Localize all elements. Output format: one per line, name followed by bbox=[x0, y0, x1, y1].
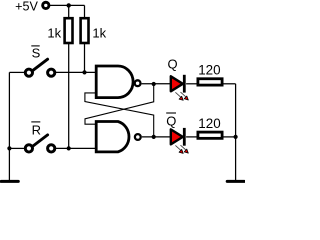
svg-text:1k: 1k bbox=[92, 25, 106, 40]
NAND gate U2 bbox=[96, 122, 141, 152]
resistor R2 1k bbox=[81, 18, 89, 43]
ground left bbox=[1, 180, 18, 183]
svg-text:120: 120 bbox=[198, 63, 220, 78]
node R4 / right vertical junction bbox=[234, 135, 238, 139]
wire feedback Q to U2 top input bbox=[85, 84, 154, 124]
node S-line / R2 junction bbox=[82, 70, 86, 74]
resistor R3 120 bbox=[198, 79, 222, 85]
wire LED2 to R4 bbox=[186, 136, 197, 138]
wire S-line right to gate U1 input bbox=[56, 71, 96, 73]
LED D1 emission arrows bbox=[175, 92, 188, 100]
svg-text:Q: Q bbox=[166, 114, 176, 129]
resistor R1 1k bbox=[65, 18, 73, 43]
wire right vertical to ground bbox=[235, 84, 237, 180]
wire R-line right to gate U2 input bbox=[56, 147, 96, 149]
node Q-bar output junction bbox=[152, 135, 156, 139]
wire LED1 to R3 bbox=[186, 83, 197, 85]
wire U2 output to LED2 bbox=[142, 136, 171, 138]
LED D2 bbox=[171, 128, 185, 146]
wire U1 output to LED1 bbox=[142, 83, 171, 85]
wire S-line left bbox=[9, 71, 24, 73]
node Q output junction bbox=[152, 82, 156, 86]
label S-bar bbox=[31, 46, 40, 61]
wire R4 to right vertical bbox=[223, 136, 235, 138]
node R-line / R1 junction bbox=[67, 146, 71, 150]
switch R bbox=[25, 135, 55, 152]
wire R2 top lead bbox=[84, 5, 86, 18]
svg-text:+5V: +5V bbox=[15, 0, 38, 14]
switch S bbox=[25, 59, 55, 76]
svg-text:1k: 1k bbox=[47, 25, 61, 40]
LED D1 bbox=[171, 75, 185, 93]
ground right bbox=[227, 180, 244, 183]
wire R-line left bbox=[9, 147, 24, 149]
label R-bar bbox=[31, 122, 41, 138]
wire R2 bottom lead down to S-line bbox=[84, 43, 86, 72]
svg-text:Q: Q bbox=[168, 56, 178, 71]
NAND gate U1 bbox=[96, 66, 140, 98]
svg-text:120: 120 bbox=[198, 116, 220, 131]
wire R1 bottom lead down to R-line bbox=[68, 43, 70, 148]
wire R1 top lead bbox=[68, 5, 70, 18]
LED D2 emission arrows bbox=[175, 145, 188, 153]
node top rail junction bbox=[67, 3, 71, 7]
wire feedback Q-bar to U1 bottom input bbox=[85, 93, 154, 137]
wire left vertical to ground bbox=[8, 72, 10, 180]
label Q-bar bbox=[166, 113, 176, 129]
resistor R4 120 bbox=[198, 132, 222, 138]
terminal +5V bbox=[43, 2, 49, 8]
svg-text:S: S bbox=[32, 46, 41, 61]
wire top rail bbox=[49, 4, 85, 6]
svg-text:R: R bbox=[32, 123, 41, 138]
node R-line left junction bbox=[7, 146, 11, 150]
wire R3 to right vertical bbox=[223, 83, 235, 85]
